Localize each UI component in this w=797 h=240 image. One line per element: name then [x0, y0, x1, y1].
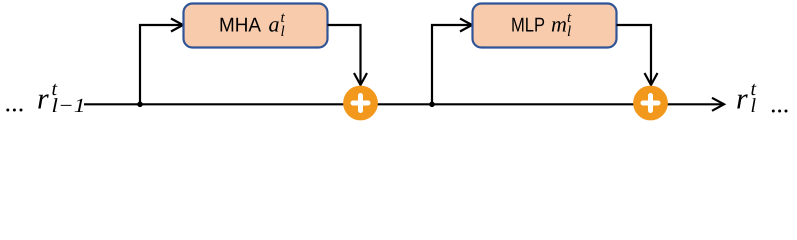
- svg-text:l: l: [567, 24, 571, 40]
- arrowhead into adder 1: [354, 73, 367, 85]
- svg-text:l−1: l−1: [52, 95, 86, 117]
- wire branch 2 vertical: [432, 25, 470, 104]
- wire MHA output to adder 1: [328, 25, 361, 83]
- label MLP m_l^t: [511, 10, 572, 40]
- arrowhead into MLP box: [460, 19, 472, 32]
- node r_{l-1} label: [37, 78, 86, 117]
- node r_l label: [736, 78, 757, 117]
- svg-text:m: m: [551, 12, 567, 37]
- arrowhead into adder 2: [645, 73, 658, 85]
- svg-text:r: r: [37, 83, 49, 116]
- arrowhead output arrow: [712, 98, 724, 111]
- svg-text:MLP: MLP: [511, 15, 545, 37]
- wire main residual stream: [84, 103, 723, 105]
- wire MLP output to adder 2: [617, 25, 652, 83]
- block MLP: [473, 4, 617, 48]
- svg-text:r: r: [736, 83, 748, 116]
- wire branch 1 vertical: [140, 25, 181, 104]
- svg-text:MHA: MHA: [219, 15, 262, 37]
- node r_l right ellipsis: [772, 110, 788, 113]
- svg-text:l: l: [281, 24, 285, 40]
- arrowhead into MHA box: [171, 19, 183, 32]
- svg-text:l: l: [751, 95, 757, 117]
- adder 1 (plus circle): [343, 86, 378, 121]
- svg-text:a: a: [269, 12, 280, 37]
- block MHA: [184, 4, 328, 48]
- label MHA a_l^t: [219, 10, 286, 40]
- node r_{l-1} left ellipsis: [6, 109, 22, 112]
- adder 2 (plus circle): [633, 86, 668, 121]
- node junction 2: [429, 102, 435, 108]
- node junction 1: [137, 102, 143, 108]
